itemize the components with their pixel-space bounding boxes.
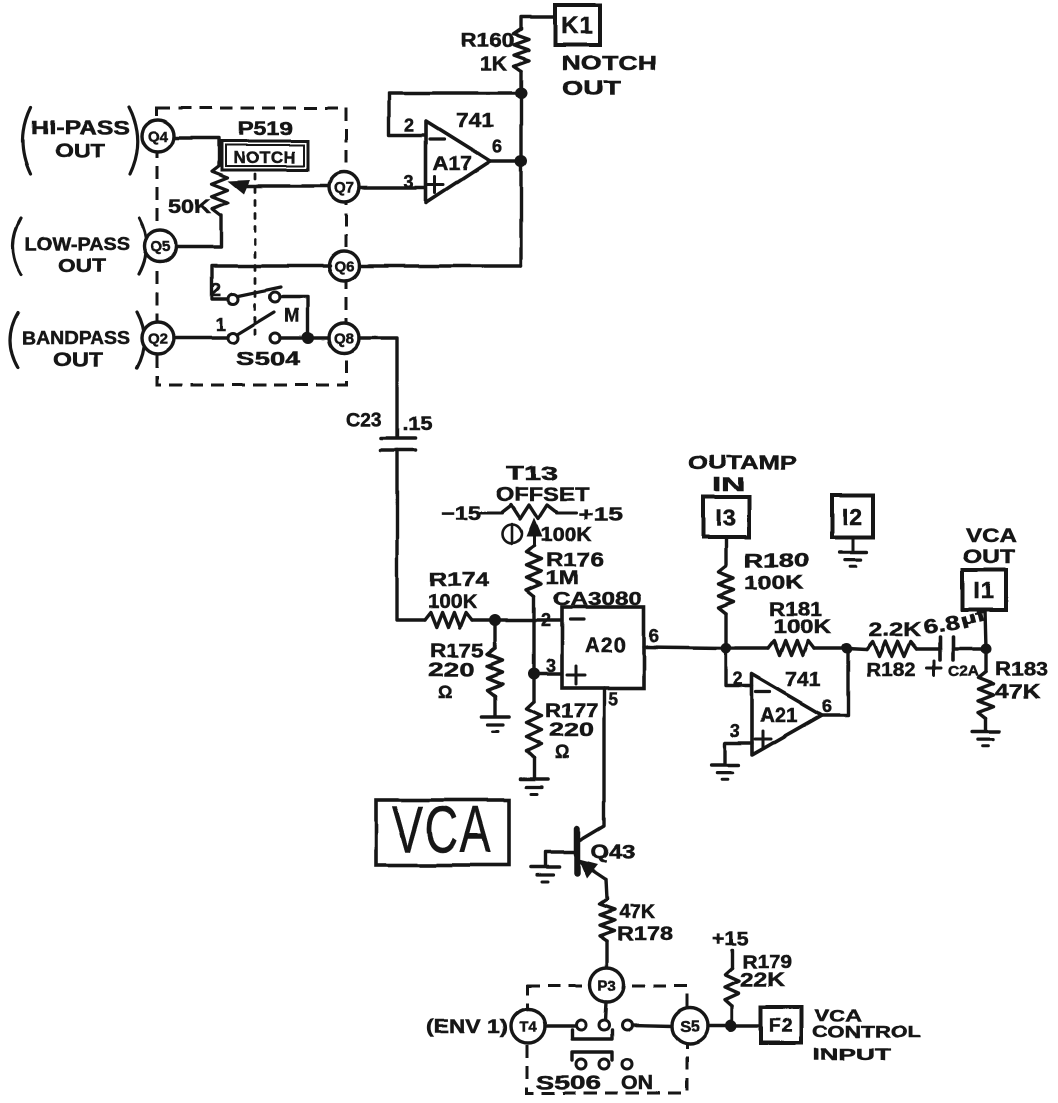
svg-text:VCA: VCA [392,792,492,866]
label (BANDPASS OUT) [10,312,145,371]
wire A20 pin5 to Q43 collector [579,688,604,841]
label S506 ON [536,1073,653,1094]
svg-text:A21: A21 [760,705,798,727]
node I1/R183 junction [981,644,992,655]
wire feedback A17 [389,93,521,135]
resistor R178 47K [600,899,674,945]
svg-text:M: M [284,306,301,327]
wire Q4 to pot top [174,138,219,165]
svg-text:2: 2 [211,280,222,300]
label P519 [238,119,293,140]
wire Q43 emitter to R178 [606,879,607,899]
dashed enclosure S506 [527,986,687,1093]
label S504 [236,349,301,370]
wire pole A to S5 [632,1025,673,1026]
svg-text:OUT: OUT [55,141,105,162]
node Q7 [329,172,359,202]
label VCA CONTROL INPUT [812,1006,921,1064]
svg-text:Ω: Ω [438,682,454,702]
label -15 [441,504,502,525]
wire C2A to node [953,647,986,650]
svg-text:C23: C23 [346,410,381,431]
svg-text:OUT: OUT [562,78,621,100]
wire R180 to node [724,614,727,648]
wire R176 down to pin3 node [532,596,535,674]
svg-text:100K: 100K [773,617,831,638]
trimpot T13 100K body [502,505,556,519]
svg-text:R160: R160 [461,31,514,52]
svg-text:BANDPASS: BANDPASS [22,328,130,348]
resistor R181 100K [768,600,831,656]
svg-text:Q8: Q8 [334,330,354,347]
resistor R176 1M [527,546,605,596]
mechanical link dotted line [254,174,257,334]
ground R175 [481,717,509,732]
terminal I3 [703,497,749,537]
svg-text:R174: R174 [429,570,490,591]
wire C23 to signal node [397,450,425,620]
svg-text:1M: 1M [546,568,579,589]
svg-text:741: 741 [456,110,494,132]
node P3 [590,968,624,1002]
label (ENV 1) [426,1017,508,1038]
ground R183 [973,732,1000,746]
svg-text:Ω: Ω [555,742,571,762]
svg-text:−15: −15 [441,504,482,525]
svg-text:K1: K1 [561,13,594,40]
svg-text:NOTCH: NOTCH [234,148,297,167]
label 100K T13 [540,525,592,546]
wire Q6 to output bus [359,264,521,267]
svg-text:6: 6 [822,696,833,716]
terminal I2 [832,495,873,537]
pot wiper arrow [228,180,330,194]
svg-text:2: 2 [404,115,415,135]
wire pot bottom to Q5 [176,215,221,247]
wire P3 to switch [605,1002,606,1021]
svg-text:C2A: C2A [948,663,979,680]
terminal F2 [761,1007,801,1043]
svg-text:T4: T4 [519,1018,537,1035]
svg-text:100K: 100K [744,573,803,594]
resistor R182 2.2K [866,620,921,681]
svg-text:T13: T13 [506,464,558,485]
node Q5 [144,230,176,262]
terminal I1 [963,570,1006,610]
wire node to R181 [726,646,768,649]
wire R174 to A20 pin2 [472,618,562,621]
svg-text:OUT: OUT [53,350,103,371]
capacitor C2A 6.8uf [922,607,989,680]
node Q8 [329,323,359,353]
node A17 output junction [515,155,527,167]
svg-text:100K: 100K [428,592,477,613]
svg-text:OUTAMP: OUTAMP [688,453,797,474]
node Q2 [142,322,174,354]
svg-text:50K: 50K [168,197,211,218]
svg-text:INPUT: INPUT [812,1045,892,1064]
wire node to R182 [847,648,867,649]
svg-text:.15: .15 [402,414,432,435]
label VCA OUT [963,526,1017,568]
svg-text:S504: S504 [236,349,301,370]
svg-text:A20: A20 [585,634,627,657]
ground R177 [520,779,548,794]
svg-text:I1: I1 [974,577,995,603]
wire R182 to C2A [917,647,940,650]
capacitor C23 .15 [346,410,432,450]
svg-text:220: 220 [549,720,594,741]
wire R181 to node [814,646,847,649]
svg-text:220: 220 [428,660,475,681]
node R174/R175 junction [489,614,501,626]
svg-text:6: 6 [649,626,660,646]
svg-text:R182: R182 [866,660,916,681]
wire +15 to R179 [730,950,733,968]
op-amp A20 CA3080 [541,589,660,709]
trimmer symbol [503,524,522,544]
svg-text:(ENV 1): (ENV 1) [426,1017,508,1038]
label +15 [556,505,624,526]
node Q6 [329,251,359,281]
node S5 [672,1008,708,1044]
ground A21 [712,765,739,779]
svg-text:3: 3 [546,656,557,676]
wire node to A21 pin2 [726,648,752,686]
svg-text:NOTCH: NOTCH [562,53,657,75]
svg-text:OUT: OUT [963,547,1016,568]
node R181/R182 junction [842,643,853,654]
svg-text:3: 3 [730,721,741,741]
svg-text:R180: R180 [744,551,809,572]
wire T4 to contact [545,1024,576,1027]
svg-text:ON: ON [621,1073,653,1094]
dashed enclosure P519/S504 [157,108,346,385]
wire Q6 branch to contact 2 [212,266,330,299]
wire R179 to node [730,1006,733,1026]
label T13 OFFSET [496,464,589,506]
switch S506 pole A [572,1020,632,1039]
svg-text:R179: R179 [742,952,792,972]
node R160/feedback junction [515,87,527,99]
svg-text:+15: +15 [712,929,748,950]
wire Q43 base to ground [545,852,574,866]
svg-text:CONTROL: CONTROL [812,1022,921,1041]
potentiometer P519 50K body [168,165,228,218]
wire A21 pin3 to ground [725,743,752,763]
label OUTAMP IN [688,453,797,496]
svg-text:F2: F2 [769,1016,793,1037]
wire A20 output [644,647,726,648]
resistor R175 220 [428,620,503,716]
resistor R177 220 [527,674,599,778]
svg-text:I2: I2 [842,503,863,529]
wire I3 to R180 [724,537,727,566]
label (HI-PASS OUT) [23,107,138,174]
wire pin3 node to A20 [534,672,562,675]
svg-text:5: 5 [608,689,619,709]
label +15 R179 [712,929,748,950]
wire pole A to M node [280,297,308,333]
svg-text:R183: R183 [995,659,1048,680]
block label VCA [376,792,509,866]
wire I1 to node [985,610,986,649]
svg-text:Q6: Q6 [334,258,354,275]
resistor R174 100K [425,570,490,628]
transistor Q43 [577,829,635,879]
wire S5 to F2 [708,1024,761,1027]
svg-text:OUT: OUT [58,256,106,277]
svg-text:S5: S5 [680,1019,700,1036]
label (LOW-PASS OUT) [13,218,147,277]
svg-text:CA3080: CA3080 [553,589,642,609]
switch S504 pole B [228,312,280,343]
svg-text:I3: I3 [715,504,736,530]
trimpot wiper arrow [526,518,542,546]
switch S506 pole B [572,1052,632,1069]
resistor R180 100K [719,551,810,614]
svg-text:Q7: Q7 [334,179,354,196]
svg-text:Q5: Q5 [150,238,170,255]
resistor R179 22K [725,952,792,1006]
svg-text:Q4: Q4 [148,128,169,145]
resistor R160 1K [461,29,529,75]
node T4 [511,1009,545,1043]
svg-text:LOW-PASS: LOW-PASS [25,234,130,254]
svg-text:47K: 47K [619,902,655,923]
wire R160 to node [519,71,522,93]
switch label NOTCH box [222,141,308,170]
svg-text:P3: P3 [598,977,616,994]
wire output bus down [519,93,522,266]
svg-text:OFFSET: OFFSET [496,485,589,506]
node A20out/R180/R181 junction [721,643,732,654]
label NOTCH OUT [562,53,657,100]
wire A17 output [490,159,521,162]
op-amp A21 [730,669,833,755]
svg-text:1: 1 [216,315,227,335]
svg-text:22K: 22K [740,970,785,991]
svg-text:+15: +15 [578,505,624,526]
svg-text:6.8: 6.8 [922,612,962,639]
svg-text:741: 741 [785,669,821,691]
svg-text:Q43: Q43 [591,842,635,863]
wire A21 output feedback [822,648,848,715]
switch S504 pole A [228,287,281,304]
wire Q2 to contact 1 [174,336,228,339]
wire Q7 to A17 pin3 [359,186,424,189]
svg-text:R178: R178 [617,924,673,945]
svg-text:1K: 1K [480,54,507,75]
svg-text:S506: S506 [536,1073,601,1094]
wire R178 to P3 [605,941,608,968]
node M junction [302,332,314,344]
node R179 junction [725,1020,737,1032]
wire K1 to R160 [521,17,555,29]
label pole 2 [211,280,222,300]
svg-text:100K: 100K [540,525,592,546]
svg-text:Q2: Q2 [148,330,168,347]
resistor R183 47K [979,649,1049,730]
svg-text:P519: P519 [238,119,293,140]
svg-text:HI-PASS: HI-PASS [31,118,130,139]
svg-text:IN: IN [712,475,745,496]
svg-text:A17: A17 [433,153,472,175]
wire pole B to Q8 [280,336,329,339]
label pole 1 [216,315,227,335]
node Q4 [142,120,174,152]
svg-text:2: 2 [733,669,744,689]
label M [284,306,301,327]
ground Q43 base [531,867,559,882]
node A20 pin3 junction [528,668,540,680]
op-amp A17 [404,110,503,203]
wire Q8 to C23 [359,338,397,436]
svg-text:2.2K: 2.2K [869,620,921,641]
terminal K1 [555,5,600,45]
svg-text:R177: R177 [545,701,598,722]
svg-text:6: 6 [492,137,503,157]
ground I2 [840,537,867,566]
svg-text:2: 2 [541,610,552,630]
svg-text:47K: 47K [995,681,1041,703]
svg-text:R175: R175 [430,641,485,662]
svg-text:VCA: VCA [966,526,1017,547]
